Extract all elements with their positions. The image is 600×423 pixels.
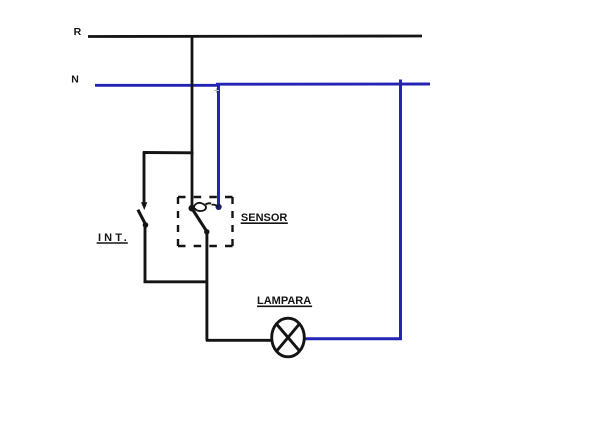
- wire main vertical from R to sensor: [191, 35, 194, 208]
- svg-text:R: R: [74, 26, 82, 38]
- wire blue drop from N to sensor: [217, 85, 220, 206]
- wire blue lamp wire horizontal: [304, 337, 402, 340]
- lamp X stroke 2: [276, 324, 299, 352]
- sensor coil scribble: [194, 203, 207, 211]
- wire black lamp wire horizontal: [206, 339, 272, 342]
- node sensor black terminal: [189, 205, 196, 212]
- artifact faint cross near N junction: [214, 88, 219, 93]
- wire loop left vertical upper: [143, 152, 146, 206]
- wire right vertical to lamp level: [205, 231, 208, 341]
- svg-text:LAMPARA: LAMPARA: [257, 295, 311, 307]
- switch blade sensor: [192, 209, 207, 232]
- lamp circle: [272, 318, 305, 357]
- svg-text:SENSOR: SENSOR: [241, 212, 288, 224]
- switch blade INT: [138, 210, 146, 225]
- sensor dashed box: [178, 196, 233, 198]
- wire blue right vertical with stub above N: [399, 80, 402, 340]
- node sensor blade bottom: [204, 229, 209, 234]
- lamp X stroke 1: [277, 324, 300, 351]
- node blade bottom INT: [143, 222, 149, 228]
- wire R phase line: [88, 35, 422, 38]
- arrowhead on left vertical: [141, 202, 147, 210]
- wire N neutral line left segment: [95, 84, 218, 87]
- svg-text:N: N: [71, 74, 79, 86]
- wire loop top horizontal: [143, 151, 194, 154]
- wire N neutral line right segment: [216, 83, 430, 86]
- wire loop bottom horizontal: [144, 280, 208, 283]
- node sensor blue terminal: [216, 204, 222, 210]
- wire loop left vertical lower: [144, 224, 147, 283]
